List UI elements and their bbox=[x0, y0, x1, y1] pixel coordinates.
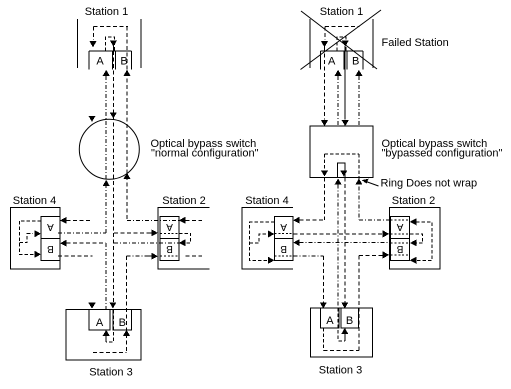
wire bypass left fiber down bbox=[324, 178, 326, 221]
svg-text:Station 3: Station 3 bbox=[89, 367, 132, 379]
wire r5L to corner bbox=[294, 255, 324, 257]
station 3 port B box bbox=[113, 310, 131, 330]
station 2R port A label (rotated) bbox=[396, 221, 403, 232]
svg-text:Station 4: Station 4 bbox=[13, 195, 56, 207]
wire h-242 crossing to station 2 B bbox=[114, 242, 179, 244]
port B box sides bbox=[115, 51, 117, 70]
wire r5R to station 2R bbox=[359, 255, 383, 257]
wire fiber center down (1R) bbox=[344, 51, 346, 120]
wire bypass internal horizontal bbox=[325, 153, 360, 155]
wire down into port A top bbox=[93, 27, 95, 41]
arrow up into circle bottom (left) bbox=[103, 180, 110, 186]
station 4 port B box bbox=[41, 239, 60, 261]
MAC box (station 1) bbox=[106, 37, 115, 51]
station 3R port B box bbox=[341, 308, 358, 328]
wire fiber B-side down (1R) bbox=[358, 76, 360, 126]
svg-text:Station 3: Station 3 bbox=[319, 365, 362, 377]
optical bypass switch circle bbox=[79, 119, 139, 179]
station 3R port B label bbox=[346, 315, 353, 327]
svg-text:A: A bbox=[96, 317, 104, 329]
arrow up into A bottom bbox=[103, 70, 110, 76]
arrow bracket into B right edge (2R) bbox=[410, 239, 417, 246]
ring does not wrap pointer bbox=[366, 182, 379, 187]
wire fiber A-side vertical (dash-dot) bbox=[105, 76, 107, 233]
svg-text:A: A bbox=[47, 221, 54, 232]
station 3 port B label bbox=[119, 317, 126, 329]
station 2 port B label (rotated) bbox=[166, 243, 173, 254]
wire bracket station 2 bbox=[179, 233, 191, 242]
arrow r6 into station 4R B bbox=[293, 239, 300, 246]
arrow up into box bottom (right) bbox=[355, 179, 362, 185]
svg-text:Station 2: Station 2 bbox=[162, 195, 205, 207]
arrow internal down left bbox=[321, 171, 328, 177]
arrow down at station 3 (left, floating) bbox=[88, 302, 96, 308]
arrow into station 2 left edge (upper) bbox=[151, 229, 158, 236]
station 3R port A label bbox=[326, 315, 334, 327]
wire bypass right fiber down bbox=[358, 178, 360, 221]
station 3 hook bbox=[106, 310, 113, 342]
label ring does not wrap bbox=[381, 178, 478, 190]
wire bridge under A box (2R) bbox=[391, 233, 410, 235]
wire bypass center-left fiber down to station 3R hook bbox=[337, 185, 339, 309]
arrow up into B bottom (1R) bbox=[355, 70, 362, 76]
svg-text:"bypassed configuration": "bypassed configuration" bbox=[382, 148, 503, 160]
svg-text:Station 1: Station 1 bbox=[85, 6, 128, 18]
wire r3 across center bbox=[294, 233, 384, 235]
port B label (1R) bbox=[352, 56, 359, 68]
wire h1R to station 2 A bbox=[127, 219, 179, 221]
svg-text:B: B bbox=[346, 315, 353, 327]
wire h2R to station 2 bbox=[114, 232, 149, 234]
station 4 wrap path bbox=[19, 221, 41, 254]
station 4 box bbox=[10, 208, 60, 269]
wire A bottom stub bbox=[105, 335, 107, 342]
wire fiber B-side vertical bbox=[126, 27, 128, 221]
arrow down into station 3R A top bbox=[320, 302, 327, 308]
station 3R port A box bbox=[321, 308, 339, 328]
svg-text:A: A bbox=[328, 56, 336, 68]
wire r1 to station 4R A bbox=[300, 219, 325, 221]
station 4R box (open right) bbox=[242, 208, 293, 269]
svg-text:B: B bbox=[352, 56, 359, 68]
wire r2 to station 2R A bbox=[359, 219, 390, 221]
wire bridge under B box bbox=[160, 255, 179, 257]
station 2R box bbox=[390, 208, 441, 269]
svg-text:Failed Station: Failed Station bbox=[382, 37, 449, 49]
port B label bbox=[120, 56, 127, 68]
station 1R ports top line bbox=[321, 50, 364, 52]
station 1 ports top line bbox=[89, 50, 132, 52]
arrow MAC out bbox=[110, 41, 117, 47]
wire bypass internal right vertical bbox=[358, 154, 360, 178]
wire h4R stub bbox=[185, 255, 202, 257]
ring pointer arrowhead bbox=[362, 179, 369, 184]
arrow wrap into B left edge bbox=[35, 251, 42, 258]
wire h1L into station 4 A bbox=[67, 219, 93, 221]
label Station 1 (left) bbox=[85, 6, 128, 18]
station 2R bracket bbox=[410, 234, 423, 243]
station 2 port B box bbox=[160, 239, 179, 261]
wire corner down to station 3R A bbox=[322, 256, 324, 302]
arrow down at station 3 (center) bbox=[109, 302, 116, 308]
port A box sides (1R) bbox=[320, 51, 322, 70]
wire r5R corner down through B edge to wrap bbox=[358, 256, 360, 351]
svg-text:B: B bbox=[119, 317, 126, 329]
svg-text:Ring Does not wrap: Ring Does not wrap bbox=[381, 178, 478, 190]
wire ring top (station 1) bbox=[94, 26, 129, 28]
station 4R port A box bbox=[275, 217, 293, 239]
wire r3 crossing station 4R column bbox=[275, 233, 293, 235]
arrow into station 2 left edge (lower) bbox=[151, 253, 158, 260]
svg-text:A: A bbox=[280, 221, 287, 232]
arrow into box top (left) bbox=[321, 120, 328, 126]
port A label (1R) bbox=[328, 56, 336, 68]
wire h4R corner to station 2 bbox=[127, 255, 149, 257]
wire fiber left down to bypass box bbox=[324, 47, 326, 120]
wire v down to station 3 right bbox=[126, 256, 128, 352]
wire MAC out stub bbox=[112, 46, 114, 51]
arrow into bypass circle top bbox=[110, 113, 117, 119]
station 3R hook bbox=[338, 308, 345, 341]
station 4R port B label (rotated) bbox=[280, 243, 287, 254]
wire h2L to station 4 bbox=[58, 232, 106, 234]
svg-text:B: B bbox=[166, 243, 173, 254]
station 4R port A label (rotated) bbox=[280, 221, 287, 232]
port B box sides (1R) bbox=[346, 51, 348, 70]
station 2R port A box bbox=[391, 217, 410, 239]
arrow into A top (1R) bbox=[321, 41, 328, 48]
svg-text:A: A bbox=[326, 315, 334, 327]
arrow wrap into B left edge (4R) bbox=[268, 257, 275, 264]
arrow into box top (center) bbox=[342, 120, 349, 126]
label Station 2 (right) bbox=[392, 195, 435, 207]
svg-text:"normal configuration": "normal configuration" bbox=[151, 148, 259, 160]
arrow hook into A left edge (4R) bbox=[268, 231, 275, 238]
arrow r5R into station 2R bbox=[383, 251, 390, 258]
wire bridge under B box (2R) bbox=[391, 254, 410, 256]
station 2R wrap path bbox=[416, 222, 432, 260]
station 3R wrap bottom bbox=[324, 349, 359, 351]
wire r2 crossing A box bbox=[391, 219, 410, 221]
label Station 2 (left) bbox=[162, 195, 205, 207]
wire MAC stub (1R) bbox=[344, 46, 346, 51]
wire h1R stub bbox=[185, 219, 202, 221]
arrow wrap into A right edge (2R) bbox=[410, 218, 417, 225]
port A label bbox=[96, 56, 104, 68]
station 3R wrap left vertical bbox=[323, 328, 325, 350]
port A box sides bbox=[88, 51, 90, 70]
label Station 3 (right) bbox=[319, 365, 362, 377]
svg-text:A: A bbox=[166, 221, 173, 232]
arrow into station 4R A bbox=[293, 217, 300, 224]
label optical bypass switch (left) bbox=[151, 138, 257, 150]
station 2R port B label (rotated) bbox=[396, 243, 403, 254]
arrow MAC out (1R) bbox=[342, 41, 349, 47]
arrow wrap into B right edge lower (2R) bbox=[410, 257, 417, 264]
svg-text:B: B bbox=[280, 243, 287, 254]
X cross line 2 bbox=[301, 10, 382, 70]
arrow down into station 3R B top bbox=[341, 302, 348, 308]
svg-text:Station 1: Station 1 bbox=[320, 6, 363, 18]
arrow bypass direction (circle top-left) bbox=[89, 116, 96, 122]
svg-text:B: B bbox=[47, 243, 54, 254]
label optical bypass switch (right) bbox=[382, 138, 488, 150]
MAC box (station 1R) bbox=[337, 37, 346, 51]
arrow internal down right bbox=[340, 171, 347, 177]
label Failed Station bbox=[382, 37, 449, 49]
wire r5L crossing station 4R column bbox=[275, 255, 293, 257]
station 1 left side wall bbox=[77, 19, 79, 68]
svg-text:Station 2: Station 2 bbox=[392, 195, 435, 207]
arrow r3 into station 2R bbox=[383, 230, 390, 237]
wire bridge under A box bbox=[160, 232, 179, 234]
wire fiber A-side down (1R) bbox=[337, 76, 339, 126]
station 1 right side wall bbox=[140, 19, 142, 68]
station 1R right side wall bbox=[372, 19, 374, 68]
svg-text:Station 4: Station 4 bbox=[245, 195, 288, 207]
arrow into station 4 B bbox=[60, 240, 67, 247]
station 2 box (open right) bbox=[158, 208, 209, 269]
station 3 wrap bottom bbox=[93, 352, 127, 354]
svg-text:A: A bbox=[396, 221, 403, 232]
station 3R box bbox=[311, 308, 373, 357]
station 4R wrap path bbox=[250, 222, 275, 260]
label bypassed configuration bbox=[382, 148, 503, 160]
X cross line 1 bbox=[301, 11, 377, 69]
station 3 box bbox=[66, 310, 141, 361]
label Station 1 (right) bbox=[320, 6, 363, 18]
station 2R port B box bbox=[391, 239, 410, 261]
arrow into station 4 A bbox=[60, 217, 67, 224]
wire h4L bbox=[58, 255, 93, 257]
arrow up into circle bottom (right) bbox=[124, 173, 131, 179]
label normal configuration bbox=[151, 148, 259, 160]
station 4 hook bbox=[19, 234, 33, 243]
optical bypass switch box bbox=[310, 126, 373, 177]
wire r6 across center bbox=[300, 242, 390, 244]
arrow up into B bottom (3R) bbox=[341, 328, 348, 334]
station 2 port A label (rotated) bbox=[166, 221, 173, 232]
wire ring top (station 1R) bbox=[325, 26, 360, 28]
station 2 port A box bbox=[160, 217, 179, 239]
svg-text:B: B bbox=[396, 243, 403, 254]
wire bypass center-right fiber down to station 3R bbox=[344, 178, 346, 303]
wire h3L into station 4 B bbox=[67, 242, 107, 244]
wire v down to station 3 (dash-dot) bbox=[105, 243, 107, 309]
arrow up into B bottom bbox=[124, 70, 131, 76]
station 4 port A label (rotated) bbox=[47, 221, 54, 232]
arrow into station2 A right edge bbox=[179, 217, 186, 224]
arrow up into box bottom (left) bbox=[335, 179, 342, 185]
arrow hook into A left edge bbox=[35, 230, 42, 237]
station 4R hook bbox=[250, 234, 266, 243]
label Station 4 (right) bbox=[245, 195, 288, 207]
wire fiber center vertical bbox=[112, 51, 114, 303]
bypass small box bbox=[338, 163, 346, 178]
station 3 port A box bbox=[89, 310, 110, 330]
wire r6 crossing B box 2R bbox=[391, 242, 410, 244]
station 3 port A label bbox=[96, 317, 104, 329]
station 4R port B box bbox=[275, 239, 293, 261]
station 1R left side wall bbox=[309, 19, 311, 68]
svg-text:A: A bbox=[96, 56, 104, 68]
wire B bottom stub (3R) bbox=[344, 333, 346, 341]
wire down into A top (1R) bbox=[324, 27, 326, 41]
label Station 4 (left) bbox=[13, 195, 56, 207]
arrow up into B bottom (station 3) bbox=[123, 330, 130, 336]
arrow into A top bbox=[90, 41, 97, 48]
wire bypass internal left vertical bbox=[324, 154, 326, 171]
station 4 port B label (rotated) bbox=[47, 243, 54, 254]
arrow up into A bottom (station 3) bbox=[103, 330, 110, 336]
arrow up into A bottom (1R) bbox=[335, 70, 342, 76]
label Station 3 (left) bbox=[89, 367, 132, 379]
arrow into station2 B right edge bbox=[179, 239, 186, 246]
station 4 port A box bbox=[41, 217, 60, 239]
